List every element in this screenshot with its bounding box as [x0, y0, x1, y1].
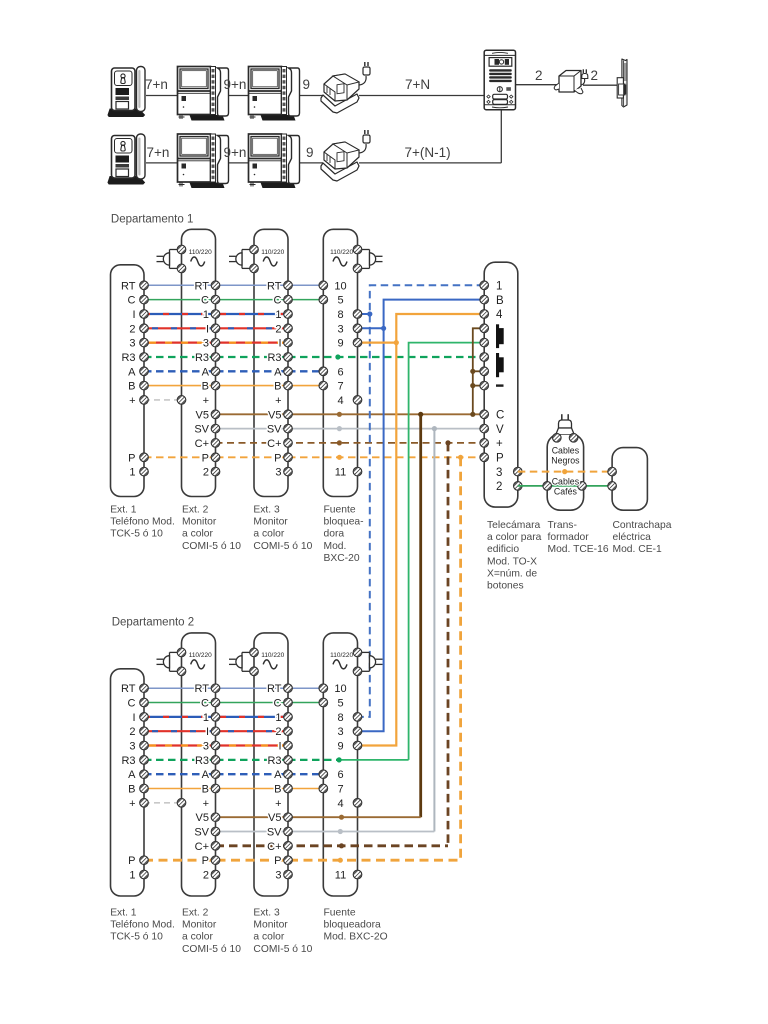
- telephone extension icon row 1: [108, 67, 145, 117]
- svg-text:Mod. BXC-2O: Mod. BXC-2O: [324, 932, 388, 943]
- terminal screws fuente (left edge): [319, 281, 328, 390]
- svg-text:+: +: [203, 798, 209, 810]
- svg-text:C+: C+: [195, 841, 209, 853]
- svg-text:3: 3: [275, 467, 281, 479]
- description label Ext.2: [182, 908, 241, 955]
- AC sine symbol Ext.2: [191, 660, 205, 669]
- terminal labels Ext.3: [267, 683, 282, 881]
- svg-text:+: +: [129, 798, 135, 810]
- contrachapa block CE-1 (outline): [612, 448, 647, 511]
- wire call line 3 (red/orange): [144, 744, 288, 746]
- svg-text:A: A: [274, 366, 282, 378]
- terminal labels fuente: [334, 683, 346, 881]
- svg-text:I: I: [278, 741, 281, 753]
- svg-text:I: I: [132, 712, 135, 724]
- svg-text:2: 2: [496, 481, 502, 493]
- power plug icon Ext.3: [229, 652, 254, 671]
- svg-text:C: C: [128, 295, 136, 307]
- svg-text:Fuente: Fuente: [324, 908, 356, 919]
- svg-text:+: +: [129, 395, 135, 407]
- svg-text:Contrachapa: Contrachapa: [613, 520, 672, 531]
- svg-text:TCK-5 ó 10: TCK-5 ó 10: [110, 529, 163, 540]
- wire: main riser line row 1 (7+n / 9+n / 9 / 7+N): [146, 95, 484, 97]
- svg-text:TCK-5 ó 10: TCK-5 ó 10: [110, 932, 163, 943]
- svg-text:COMI-5 ó 10: COMI-5 ó 10: [253, 541, 312, 552]
- svg-text:Departamento 2: Departamento 2: [112, 617, 194, 629]
- svg-text:2: 2: [203, 870, 209, 882]
- terminal strip Ext.1 telephone (outline): [111, 265, 145, 497]
- svg-text:I: I: [206, 323, 209, 335]
- svg-text:Telecámara: Telecámara: [487, 520, 540, 531]
- terminal strip fuente bloqueadora (outline): [323, 229, 357, 496]
- transformer icon (top): [554, 69, 588, 94]
- svg-text:B: B: [202, 784, 209, 796]
- wire call line 3 (red/orange): [144, 342, 288, 344]
- svg-text:P: P: [496, 453, 504, 465]
- svg-text:110/220: 110/220: [189, 652, 212, 659]
- wire SV (silver): [216, 426, 485, 431]
- monitor icon row 1b: [249, 67, 300, 121]
- terminal screws Ext.2 (right edge): [211, 281, 220, 476]
- terminal screws Ext.1 (right edge): [140, 281, 149, 476]
- svg-text:B: B: [274, 784, 281, 796]
- svg-text:bloqueadora: bloqueadora: [324, 920, 382, 931]
- svg-text:Trans-: Trans-: [548, 520, 577, 531]
- AC sine symbol Ext.2: [191, 257, 205, 266]
- wire + (gray dashed): [144, 399, 182, 401]
- telecamera jumper bar 2: [496, 353, 504, 377]
- description label Ext.1: [110, 908, 175, 943]
- svg-text:eléctrica: eléctrica: [613, 532, 652, 543]
- svg-text:7+N: 7+N: [405, 77, 430, 92]
- svg-text:9+n: 9+n: [224, 145, 247, 160]
- svg-text:Mod. TO-X: Mod. TO-X: [487, 556, 537, 567]
- terminal screws Ext.2 (right edge): [211, 684, 220, 879]
- wire SV (silver): [216, 829, 435, 834]
- wire B (orange): [144, 385, 323, 387]
- svg-text:V: V: [496, 424, 504, 436]
- monitor icon row 2a: [178, 134, 229, 188]
- telecamera terminal screws (left edge): [480, 281, 489, 462]
- description label contrachapa: [613, 520, 672, 555]
- riser wire SV (gray) down to dept 2: [433, 429, 435, 832]
- description label Ext.3: [253, 505, 312, 552]
- description label fuente: [324, 505, 364, 564]
- svg-text:I: I: [278, 338, 281, 350]
- contrachapa screws (left edge): [608, 467, 617, 490]
- svg-text:Monitor: Monitor: [253, 517, 288, 528]
- terminal labels Ext.1: [121, 683, 136, 881]
- svg-text:B: B: [128, 381, 135, 393]
- svg-text:RT: RT: [267, 683, 282, 695]
- svg-text:C: C: [274, 698, 282, 710]
- svg-text:1: 1: [275, 712, 281, 724]
- terminal labels Ext.2: [194, 683, 209, 881]
- svg-text:V5: V5: [196, 812, 209, 824]
- svg-text:A: A: [202, 769, 210, 781]
- svg-text:SV: SV: [194, 827, 209, 839]
- svg-text:edificio: edificio: [487, 544, 519, 555]
- svg-text:6: 6: [337, 769, 343, 781]
- telephone extension icon row 2: [108, 134, 145, 184]
- svg-text:1: 1: [203, 309, 209, 321]
- svg-text:Teléfono Mod.: Teléfono Mod.: [110, 920, 175, 931]
- svg-text:3: 3: [129, 338, 135, 350]
- wire telecamera 3 to strike (orange dashed, cables negros): [518, 469, 612, 474]
- svg-text:B: B: [274, 381, 281, 393]
- svg-text:Teléfono Mod.: Teléfono Mod.: [110, 517, 175, 528]
- svg-text:C: C: [201, 698, 209, 710]
- svg-text:Fuente: Fuente: [324, 505, 356, 516]
- svg-text:8: 8: [337, 309, 343, 321]
- transformer screws (sides): [543, 482, 586, 491]
- svg-text:R3: R3: [121, 755, 135, 767]
- svg-text:a color para: a color para: [487, 532, 542, 543]
- svg-text:3: 3: [337, 323, 343, 335]
- label cables cafes: [552, 477, 580, 497]
- terminal screws Ext.3 power (left edge): [250, 245, 259, 273]
- svg-text:COMI-5 ó 10: COMI-5 ó 10: [182, 541, 241, 552]
- svg-text:1: 1: [203, 712, 209, 724]
- telecamera jumper bar 1: [496, 324, 504, 348]
- wire call line 2 (red/blue): [144, 327, 288, 329]
- svg-text:C+: C+: [267, 438, 281, 450]
- svg-text:Monitor: Monitor: [182, 517, 217, 528]
- svg-text:9+n: 9+n: [224, 77, 247, 92]
- wire: entrance panel to transformer (2 wires): [516, 84, 558, 86]
- terminal screws Ext.2 power (left edge): [177, 245, 186, 404]
- riser wire B/3 (blue solid) to telecamera terminal B: [358, 300, 485, 732]
- terminal screws Ext.1 (right edge): [140, 684, 149, 879]
- svg-text:I: I: [206, 726, 209, 738]
- terminal screws Ext.3 (right edge): [284, 684, 293, 879]
- svg-text:Ext. 1: Ext. 1: [110, 505, 137, 516]
- svg-text:Mod. TCE-16: Mod. TCE-16: [548, 544, 609, 555]
- svg-text:RT: RT: [267, 280, 282, 292]
- riser wire 1/8 (blue dashed) to telecamera terminal 1: [358, 285, 485, 717]
- svg-text:V5: V5: [196, 409, 209, 421]
- description label transformador: [548, 520, 609, 555]
- wire telecamera 2 to strike (green, cables cafes): [518, 485, 612, 487]
- svg-text:R3: R3: [195, 352, 209, 364]
- terminal screws fuente (right edge): [353, 648, 362, 879]
- svg-text:4: 4: [337, 798, 343, 810]
- svg-text:C: C: [128, 698, 136, 710]
- svg-text:8: 8: [337, 712, 343, 724]
- svg-text:2: 2: [275, 323, 281, 335]
- svg-text:+: +: [275, 395, 281, 407]
- description label Ext.1: [110, 505, 175, 540]
- description label telecamera: [487, 520, 542, 592]
- svg-text:Ext. 2: Ext. 2: [182, 505, 209, 516]
- svg-text:B: B: [128, 784, 135, 796]
- AC sine symbol fuente: [333, 660, 347, 669]
- svg-text:RT: RT: [121, 683, 136, 695]
- svg-text:1: 1: [275, 309, 281, 321]
- svg-text:+: +: [496, 438, 503, 450]
- telecamera terminal labels: [496, 281, 504, 494]
- svg-text:P: P: [274, 855, 281, 867]
- terminal labels Ext.2: [194, 280, 209, 478]
- terminal screws Ext.2 power (left edge): [177, 648, 186, 807]
- terminal strip fuente bloqueadora (outline): [323, 633, 357, 896]
- terminal strip Ext.1 telephone (outline): [111, 669, 145, 896]
- power plug icon Ext.2: [157, 652, 182, 671]
- svg-text:R3: R3: [267, 755, 281, 767]
- svg-text:9: 9: [306, 145, 314, 160]
- AC sine symbol Ext.3: [263, 257, 277, 266]
- svg-text:formador: formador: [548, 532, 590, 543]
- transformer plug icon (prongs up): [556, 414, 574, 434]
- svg-text:10: 10: [334, 683, 346, 695]
- svg-text:1: 1: [129, 870, 135, 882]
- description label fuente: [324, 908, 388, 943]
- wire P (orange dashed): [144, 455, 484, 460]
- svg-text:R3: R3: [267, 352, 281, 364]
- svg-text:B: B: [496, 295, 504, 307]
- power plug icon fuente: [358, 652, 383, 671]
- svg-text:a color: a color: [182, 932, 213, 943]
- svg-text:COMI-5 ó 10: COMI-5 ó 10: [253, 944, 312, 955]
- svg-text:A: A: [128, 366, 136, 378]
- svg-text:9: 9: [303, 77, 311, 92]
- svg-text:110/220: 110/220: [261, 249, 284, 256]
- svg-text:11: 11: [335, 467, 346, 479]
- terminal strip Ext.3 monitor (outline): [254, 633, 288, 896]
- svg-text:+: +: [203, 395, 209, 407]
- svg-text:Monitor: Monitor: [253, 920, 288, 931]
- wire C+ (brown dashed): [216, 440, 485, 445]
- wire RT (blue): [144, 284, 323, 286]
- svg-text:Cables: Cables: [552, 477, 580, 487]
- svg-text:V5: V5: [268, 812, 281, 824]
- svg-text:SV: SV: [267, 827, 282, 839]
- svg-text:3: 3: [496, 467, 502, 479]
- svg-text:110/220: 110/220: [261, 652, 284, 659]
- blocking supply icon row 1: [321, 62, 370, 113]
- wire A (blue dashed): [144, 370, 323, 372]
- wire A (blue dashed): [144, 773, 323, 775]
- svg-text:C: C: [496, 410, 504, 422]
- riser wire P (orange dashed) down to dept 2: [459, 457, 462, 860]
- terminal labels Ext.3: [267, 280, 282, 478]
- svg-text:a color: a color: [182, 529, 213, 540]
- riser wire V5 (dark brown) down to dept 2: [419, 414, 422, 817]
- wire V5 (brown): [216, 412, 485, 417]
- svg-text:C: C: [274, 295, 282, 307]
- svg-text:5: 5: [337, 295, 343, 307]
- svg-text:4: 4: [337, 395, 343, 407]
- svg-text:10: 10: [334, 280, 346, 292]
- wire call line 1 (blue/red): [144, 716, 288, 718]
- terminal strip Ext.2 monitor (outline): [182, 633, 216, 896]
- wire RT (blue): [144, 687, 323, 689]
- svg-text:RT: RT: [195, 683, 210, 695]
- svg-text:R3: R3: [195, 755, 209, 767]
- svg-text:+: +: [275, 798, 281, 810]
- svg-text:2: 2: [591, 68, 599, 83]
- svg-text:C+: C+: [267, 841, 281, 853]
- svg-text:SV: SV: [194, 424, 209, 436]
- svg-text:C+: C+: [195, 438, 209, 450]
- svg-text:Negros: Negros: [551, 456, 580, 466]
- terminal labels Ext.1: [121, 280, 136, 478]
- svg-text:P: P: [202, 452, 209, 464]
- telecamera block TO-X (outline): [484, 262, 518, 507]
- svg-text:1: 1: [129, 467, 135, 479]
- svg-text:Ext. 2: Ext. 2: [182, 908, 209, 919]
- svg-text:3: 3: [203, 741, 209, 753]
- wire: main riser line row 2 (7+(N-1)) up to entrance panel: [146, 110, 501, 163]
- svg-text:BXC-20: BXC-20: [324, 553, 360, 564]
- svg-text:Departamento 1: Departamento 1: [111, 214, 193, 226]
- riser wire video (green) to telecamera: [409, 343, 485, 760]
- camera feeder (brown) vertical to telecamera terminals: [470, 328, 484, 414]
- blocking supply icon row 2: [321, 130, 370, 181]
- svg-text:2: 2: [129, 726, 135, 738]
- entrance panel (door station): [484, 50, 515, 109]
- svg-text:V5: V5: [268, 409, 281, 421]
- svg-text:5: 5: [337, 698, 343, 710]
- terminal screws fuente (right edge): [353, 245, 362, 476]
- svg-text:RT: RT: [121, 280, 136, 292]
- svg-text:Cables: Cables: [552, 446, 580, 456]
- svg-text:Monitor: Monitor: [182, 920, 217, 931]
- svg-text:7+n: 7+n: [145, 77, 168, 92]
- svg-text:9: 9: [337, 338, 343, 350]
- svg-text:7: 7: [337, 381, 343, 393]
- svg-text:Cafés: Cafés: [554, 487, 578, 497]
- svg-text:SV: SV: [267, 424, 282, 436]
- wire R3 (green dashed): [144, 757, 409, 762]
- svg-text:Mod. CE-1: Mod. CE-1: [613, 544, 662, 555]
- wire call line 1 (blue/red): [144, 313, 288, 315]
- svg-text:Ext. 3: Ext. 3: [253, 908, 280, 919]
- svg-text:6: 6: [337, 366, 343, 378]
- svg-text:A: A: [128, 769, 136, 781]
- wire C (green): [144, 702, 323, 704]
- svg-text:A: A: [274, 769, 282, 781]
- svg-text:110/220: 110/220: [189, 249, 212, 256]
- svg-text:110/220: 110/220: [330, 249, 353, 256]
- svg-text:3: 3: [129, 741, 135, 753]
- svg-text:P: P: [274, 452, 281, 464]
- svg-text:P: P: [128, 855, 135, 867]
- wire P (orange dashed): [144, 858, 461, 863]
- svg-text:3: 3: [337, 726, 343, 738]
- wire call line 2 (red/blue): [144, 730, 288, 732]
- description label Ext.2: [182, 505, 241, 552]
- power plug icon fuente: [358, 250, 383, 269]
- svg-text:I: I: [132, 309, 135, 321]
- riser wire C+ (brown dashed) down to dept 2: [447, 443, 450, 846]
- svg-text:X=núm. de: X=núm. de: [487, 568, 537, 579]
- svg-text:R3: R3: [121, 352, 135, 364]
- svg-text:Mod.: Mod.: [324, 541, 347, 552]
- svg-text:3: 3: [203, 338, 209, 350]
- svg-text:11: 11: [335, 870, 346, 882]
- transformer shoulder screws: [553, 434, 578, 443]
- svg-text:110/220: 110/220: [330, 652, 353, 659]
- label cables negros: [551, 446, 580, 466]
- svg-text:7+(N-1): 7+(N-1): [405, 145, 451, 160]
- AC sine symbol fuente: [333, 257, 347, 266]
- riser wire 4/9 (orange) to telecamera terminal 4: [358, 314, 485, 746]
- svg-text:2: 2: [275, 726, 281, 738]
- wire: transformer to electric strike (2 wires): [583, 84, 617, 86]
- svg-text:bloquea-: bloquea-: [324, 517, 364, 528]
- wire V5 (brown): [216, 815, 421, 820]
- wire R3 (green dashed): [144, 354, 484, 359]
- svg-text:A: A: [202, 366, 210, 378]
- terminal screws fuente (left edge): [319, 684, 328, 793]
- svg-text:COMI-5 ó 10: COMI-5 ó 10: [182, 944, 241, 955]
- svg-text:2: 2: [203, 467, 209, 479]
- telecamera terminal screws 3,2 (right edge): [514, 467, 523, 490]
- svg-text:B: B: [202, 381, 209, 393]
- monitor icon row 1a: [178, 67, 229, 121]
- terminal strip Ext.2 monitor (outline): [182, 229, 216, 496]
- svg-text:P: P: [128, 452, 135, 464]
- svg-text:2: 2: [129, 323, 135, 335]
- svg-text:P: P: [202, 855, 209, 867]
- svg-text:a color: a color: [253, 932, 284, 943]
- svg-text:C: C: [201, 295, 209, 307]
- svg-text:1: 1: [496, 281, 502, 293]
- terminal screws Ext.3 (right edge): [284, 281, 293, 476]
- AC sine symbol Ext.3: [263, 660, 277, 669]
- electric strike icon (top): [617, 59, 627, 107]
- svg-text:9: 9: [337, 741, 343, 753]
- power plug icon Ext.3: [229, 250, 254, 269]
- svg-text:RT: RT: [195, 280, 210, 292]
- wire C (green): [144, 299, 323, 301]
- transformer TCE-16 block (outline): [547, 434, 583, 510]
- wire + (gray dashed): [144, 802, 182, 804]
- svg-text:3: 3: [275, 870, 281, 882]
- svg-text:botones: botones: [487, 581, 524, 592]
- description label Ext.3: [253, 908, 312, 955]
- power plug icon Ext.2: [157, 250, 182, 269]
- terminal labels fuente: [334, 280, 346, 478]
- wire B (orange): [144, 788, 323, 790]
- terminal strip Ext.3 monitor (outline): [254, 229, 288, 496]
- svg-text:4: 4: [496, 309, 503, 321]
- svg-text:a color: a color: [253, 529, 284, 540]
- svg-text:7+n: 7+n: [147, 145, 170, 160]
- wire C+ (brown dashed): [216, 843, 449, 848]
- svg-text:dora: dora: [324, 529, 345, 540]
- monitor icon row 2b: [249, 134, 300, 188]
- svg-text:Ext. 3: Ext. 3: [253, 505, 280, 516]
- svg-text:2: 2: [535, 68, 543, 83]
- terminal screws Ext.3 power (left edge): [250, 648, 259, 675]
- svg-text:Ext. 1: Ext. 1: [110, 908, 137, 919]
- svg-text:7: 7: [337, 784, 343, 796]
